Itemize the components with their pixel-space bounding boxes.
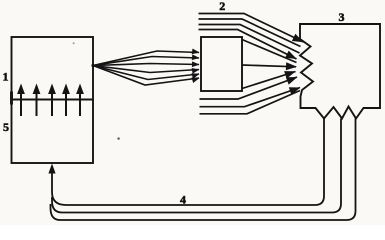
svg-text:3: 3	[339, 10, 345, 24]
svg-text:1: 1	[3, 70, 9, 84]
svg-text:2: 2	[219, 0, 225, 13]
svg-text:5: 5	[3, 120, 9, 134]
svg-text:4: 4	[180, 192, 186, 206]
